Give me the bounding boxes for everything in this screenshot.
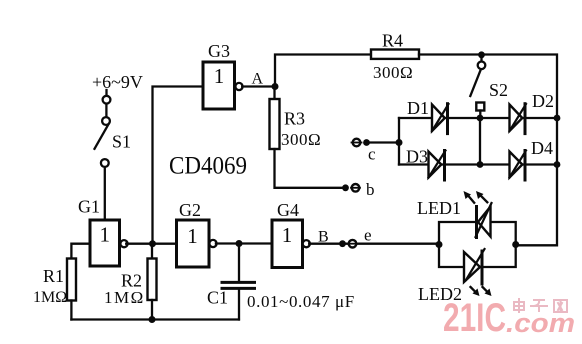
wire: R1 bottom to ground rail (70, 301, 72, 320)
wire: R3 bottom to terminal b (275, 149, 346, 188)
wire: G4 output to terminal e (309, 243, 349, 245)
resistor R4 (371, 31, 419, 83)
svg-text:G1: G1 (78, 197, 100, 217)
wire: S2 to bridge centre (479, 111, 481, 119)
wire: bridge centre vertical (479, 118, 481, 165)
resistor R3 (270, 87, 322, 150)
svg-text:D3: D3 (406, 147, 428, 167)
svg-text:G4: G4 (277, 200, 299, 220)
capacitor C1 (207, 244, 355, 320)
wire: LED parallel loop (439, 222, 516, 267)
svg-text:G2: G2 (179, 200, 201, 220)
svg-text:+6~9V: +6~9V (92, 72, 143, 92)
node: junction G2 out / C1 (236, 240, 243, 247)
node: LED right (512, 241, 519, 248)
diode D1 (407, 98, 449, 134)
svg-text:LED1: LED1 (417, 198, 461, 218)
svg-text:R3: R3 (284, 109, 305, 129)
wire: S1 to G1 top (104, 167, 106, 220)
diode D3 (406, 147, 446, 181)
svg-text:e: e (364, 226, 372, 245)
svg-text:G3: G3 (208, 41, 230, 61)
resistor R2 (104, 247, 157, 323)
svg-text:D2: D2 (532, 91, 554, 111)
svg-text:21IC: 21IC (443, 296, 506, 340)
wire: bridge top row (399, 117, 557, 119)
inverter G4 (272, 200, 310, 268)
wire: G1 output to node (126, 243, 176, 245)
svg-text:1MΩ: 1MΩ (33, 289, 67, 306)
inverter G2 (177, 200, 217, 267)
svg-text:R1: R1 (43, 266, 64, 286)
wire: G3 output to node A (242, 85, 275, 87)
svg-text:S1: S1 (112, 132, 131, 152)
svg-text:1MΩ: 1MΩ (104, 288, 145, 307)
svg-text:D1: D1 (407, 98, 429, 118)
LED LED2 (418, 249, 492, 304)
wire: supply lead to S1 (105, 90, 107, 96)
wire: bridge left vertical (398, 118, 400, 165)
terminal c (353, 139, 361, 147)
switch S2 (470, 55, 508, 111)
node: LED left (436, 241, 443, 248)
inverter G1 (78, 197, 128, 267)
svg-text:1: 1 (282, 223, 293, 247)
svg-text:C1: C1 (207, 288, 228, 308)
wire: node riser to G3 input (153, 87, 204, 244)
inverter G3 (203, 41, 243, 109)
LED LED1 (417, 191, 492, 238)
svg-text:0.01~0.047 μF: 0.01~0.047 μF (247, 292, 355, 311)
svg-text:S2: S2 (489, 80, 508, 100)
node: bridge bottom centre (477, 161, 484, 168)
wire: G2 output to G4 input (216, 242, 272, 244)
node: rail above S2 (478, 51, 485, 58)
svg-text:CD4069: CD4069 (169, 153, 247, 180)
node A (272, 83, 279, 90)
wire: top rail to right vertical (419, 55, 557, 246)
svg-text:300Ω: 300Ω (373, 63, 413, 82)
watermark chinese characters 电子网 (514, 299, 567, 312)
diode D2 (510, 91, 555, 134)
resistor R1 (33, 259, 76, 307)
watermark 21IC.com logo (443, 296, 575, 340)
terminal b (352, 184, 360, 192)
terminal e (349, 240, 357, 248)
svg-text:R4: R4 (382, 31, 403, 51)
svg-text:b: b (366, 180, 375, 199)
node: bridge top right (554, 115, 561, 122)
svg-text:1: 1 (214, 64, 225, 88)
wire: terminal e to LED block (356, 243, 439, 245)
svg-text:1: 1 (187, 224, 198, 248)
switch S1 (95, 96, 132, 167)
svg-text:D4: D4 (531, 138, 553, 158)
wire: terminal c to bridge left node (367, 141, 400, 143)
wire: node A riser to top rail (275, 55, 371, 87)
node: bridge left (396, 139, 403, 146)
svg-text:300Ω: 300Ω (281, 130, 321, 149)
wire: bridge bottom row (399, 163, 557, 165)
svg-text:1: 1 (100, 223, 111, 247)
node: junction G1 out / G2 in (149, 240, 156, 247)
wire: bottom rail (71, 318, 239, 320)
diode D4 (510, 138, 554, 180)
wire: G1 input to R1 top (71, 244, 90, 259)
svg-text:c: c (368, 145, 376, 164)
node: bridge top centre (477, 115, 484, 122)
node: bridge bottom right (554, 161, 561, 168)
svg-text:A: A (252, 71, 264, 88)
